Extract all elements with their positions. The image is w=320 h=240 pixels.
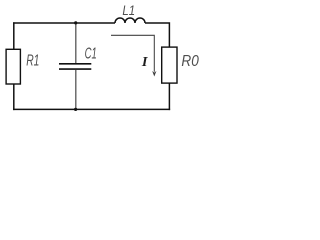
current arrow I (111, 35, 156, 76)
junction bottom node (74, 108, 77, 111)
wire bottom horizontal (13, 108, 170, 110)
inductor L1 (115, 18, 145, 23)
wire top-right and right vertical to R0 (145, 23, 169, 47)
resistor R1 (6, 49, 20, 84)
wire right vertical below R0 (168, 83, 170, 110)
wire capacitor branch bottom (75, 70, 77, 110)
resistor R0 (162, 47, 177, 83)
svg-text:R0: R0 (181, 53, 199, 70)
wire left vertical top (13, 22, 15, 49)
wire capacitor branch top (75, 23, 77, 63)
wire top-left horizontal (13, 22, 115, 24)
wire left vertical bottom (13, 84, 15, 110)
svg-text:L1: L1 (122, 2, 135, 18)
svg-text:R1: R1 (26, 53, 39, 70)
svg-text:I: I (141, 55, 148, 70)
capacitor C1 (59, 64, 91, 69)
junction top node (74, 21, 77, 24)
svg-text:C1: C1 (85, 45, 97, 62)
